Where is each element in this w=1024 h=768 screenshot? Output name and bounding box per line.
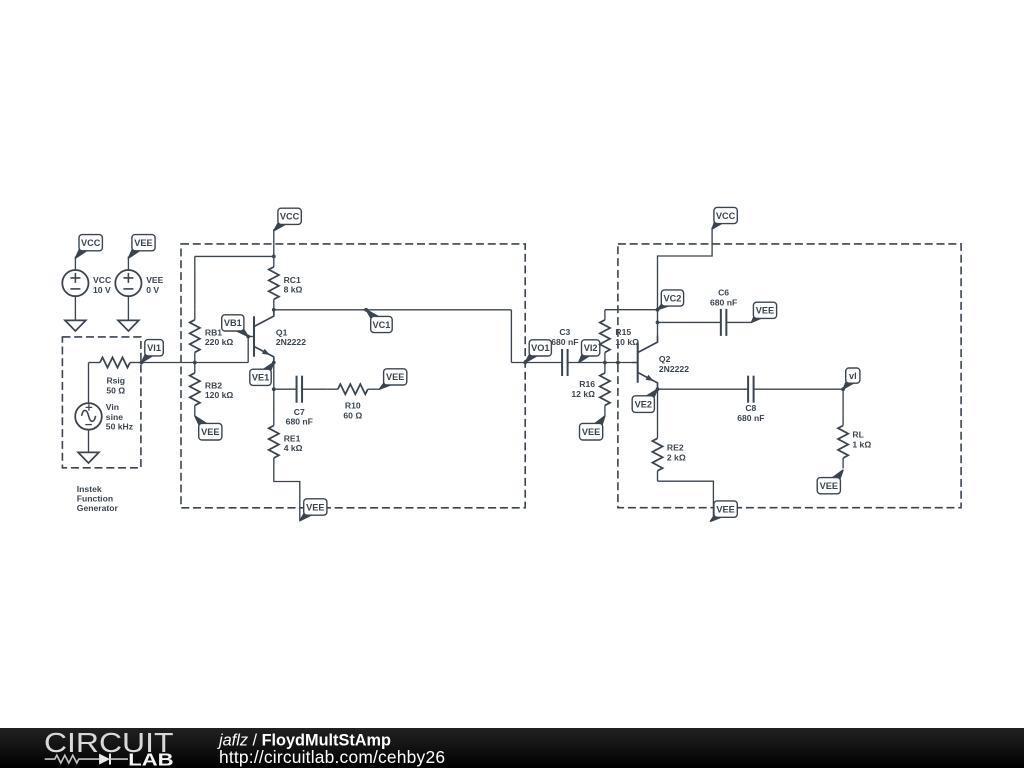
resistor RL (842, 415, 844, 425)
svg-text:Rsig: Rsig (106, 376, 125, 386)
svg-text:VO1: VO1 (531, 343, 549, 353)
svg-text:VCC: VCC (280, 212, 300, 222)
junction VI1 node (140, 361, 144, 365)
net flag VCC (supply definition) (75, 248, 87, 259)
wire Vin to Rsig (88, 363, 90, 404)
svg-text:RC1: RC1 (284, 275, 301, 285)
svg-text:VEE: VEE (201, 427, 219, 437)
net flag VO1 (525, 353, 538, 363)
net flag VEE (supply definition) (128, 248, 140, 259)
svg-text:VEE: VEE (146, 275, 163, 285)
svg-text:VEE: VEE (386, 372, 404, 382)
svg-text:120 kΩ: 120 kΩ (205, 390, 234, 400)
svg-text:2N2222: 2N2222 (659, 364, 689, 374)
CircuitLab logo resistor-diode glyph (45, 755, 99, 763)
svg-text:VC1: VC1 (373, 320, 391, 330)
wire VCC drop stage 2 (658, 228, 713, 310)
svg-text:RE1: RE1 (284, 433, 301, 443)
wire collector rail to VC1 (274, 309, 512, 311)
resistor Rsig (89, 362, 101, 364)
voltage source VCC 10 V (62, 270, 88, 296)
wire C7 to R10 (302, 388, 326, 390)
junction VCC rail node (272, 255, 276, 259)
svg-text:680 nF: 680 nF (286, 417, 313, 427)
net flag VC1 (366, 310, 379, 320)
wire VEE source to ground (127, 296, 129, 320)
wire VEE flag to source (127, 257, 129, 271)
svg-text:Instek: Instek (77, 484, 102, 494)
net flag VEE (bottom stage 1) (300, 512, 312, 521)
junction Q2 emitter node (656, 387, 660, 391)
svg-text:C7: C7 (294, 407, 305, 417)
svg-text:Generator: Generator (77, 503, 119, 513)
capacitor C3 (561, 349, 563, 376)
resistor RB2 (194, 363, 196, 373)
wire VC1 rail drop (510, 310, 512, 363)
wire vl to RL (842, 389, 844, 415)
footer bar background (0, 728, 1024, 768)
net flag VCC (stage 1) (274, 221, 287, 231)
svg-text:RB2: RB2 (205, 380, 222, 390)
junction VO1 node (523, 361, 527, 365)
net flag VEE (below R16) (594, 416, 605, 427)
svg-text:50 Ω: 50 Ω (106, 385, 125, 395)
net flag VEE (below RB2) (195, 416, 207, 427)
junction emitter branch node (272, 387, 276, 391)
svg-text:RL: RL (852, 430, 863, 440)
dashed box: amplifier stage 2 (618, 244, 961, 508)
wire to C6 (658, 321, 721, 323)
junction VC1 node (364, 308, 368, 312)
svg-text:10 V: 10 V (93, 285, 111, 295)
net flag VEE (right of C6) (752, 315, 762, 322)
svg-text:VE2: VE2 (635, 399, 652, 409)
wire emitter branch to RE1 (273, 389, 275, 415)
svg-text:VCC: VCC (93, 275, 111, 285)
net flag VI2 (579, 353, 590, 363)
net flag VE1 (263, 363, 274, 373)
capacitor C6 (720, 309, 722, 336)
svg-text:VB1: VB1 (224, 318, 242, 328)
svg-text:VEE: VEE (582, 427, 600, 437)
voltage source VEE 0 V (115, 270, 141, 296)
svg-text:R15: R15 (615, 327, 631, 337)
svg-text:VEE: VEE (306, 502, 324, 512)
net flag vl (843, 380, 854, 389)
wire left rail (194, 256, 196, 309)
svg-text:VEE: VEE (756, 306, 774, 316)
svg-text:VI2: VI2 (584, 343, 598, 353)
junction Q1 collector node (272, 308, 276, 312)
wire to C3 (511, 362, 562, 364)
svg-text:C6: C6 (718, 288, 729, 298)
svg-text:1 kΩ: 1 kΩ (852, 439, 871, 449)
svg-text:Q2: Q2 (659, 354, 671, 364)
svg-text:VEE: VEE (716, 504, 734, 514)
svg-text:VCC: VCC (81, 238, 101, 248)
svg-text:Q1: Q1 (276, 327, 288, 337)
svg-text:VE1: VE1 (252, 373, 269, 383)
wire C6 to VEE flag (726, 321, 751, 323)
capacitor C7 (296, 376, 298, 403)
resistor RC1 (273, 256, 275, 266)
net flag VI1 (142, 353, 154, 363)
svg-text:680 nF: 680 nF (710, 297, 737, 307)
wire RE1 to VEE flag (274, 468, 300, 520)
svg-text:R10: R10 (345, 401, 361, 411)
wire Q1 emitter to C7 (273, 363, 275, 390)
wire collector rail stage 2 (657, 310, 659, 336)
svg-text:RB1: RB1 (205, 327, 222, 337)
junction Q1 base node (246, 335, 250, 339)
svg-text:680 nF: 680 nF (737, 413, 764, 423)
svg-text:http://circuitlab.com/cehby26: http://circuitlab.com/cehby26 (219, 747, 445, 767)
dashed box: amplifier stage 1 (181, 244, 525, 508)
junction RB1-RB2 node (193, 361, 197, 365)
svg-text:VI1: VI1 (147, 343, 161, 353)
svg-text:Function: Function (77, 494, 113, 504)
svg-text:VCC: VCC (716, 211, 736, 221)
wire VCC source to ground (74, 296, 76, 320)
resistor RB1 (194, 310, 196, 320)
ground (below VEE source) (118, 320, 139, 331)
svg-text:RE2: RE2 (667, 443, 684, 453)
svg-text:VC2: VC2 (664, 293, 682, 303)
svg-text:LAB: LAB (128, 750, 173, 768)
resistor R10 (326, 388, 338, 390)
net flag VEE (below RL) (832, 470, 843, 481)
net flag VCC (stage 2) (712, 220, 722, 229)
net flag VEE (right of R10) (379, 382, 392, 389)
ground (below VCC source) (65, 320, 86, 331)
wire RE2 to VEE flag (658, 481, 714, 521)
junction R15-R16 node (603, 361, 607, 365)
resistor RE2 (657, 428, 659, 438)
ground (below Vin) (78, 452, 99, 463)
resistor R15 (604, 310, 606, 320)
svg-text:10 kΩ: 10 kΩ (615, 337, 639, 347)
svg-text:60 Ω: 60 Ω (343, 410, 362, 420)
svg-text:12 kΩ: 12 kΩ (571, 389, 595, 399)
svg-text:680 nF: 680 nF (551, 337, 578, 347)
svg-text:VEE: VEE (820, 481, 838, 491)
svg-text:sine: sine (106, 412, 123, 422)
junction VC2 node (656, 308, 660, 312)
svg-text:R16: R16 (579, 379, 595, 389)
net flag VB1 (235, 328, 248, 337)
junction C6 branch node (656, 321, 660, 325)
net flag VC2 (658, 303, 670, 310)
svg-text:8 kΩ: 8 kΩ (284, 285, 303, 295)
capacitor C8 (747, 376, 749, 403)
svg-text:C3: C3 (559, 327, 570, 337)
svg-text:vl: vl (849, 371, 857, 381)
junction vl node (841, 387, 845, 391)
wire R15 top rail (605, 309, 658, 311)
junction Q1 emitter node (272, 361, 276, 365)
wire VCC flag to source (74, 257, 76, 271)
svg-text:VEE: VEE (134, 238, 152, 248)
wire C8 to vl node (754, 388, 844, 390)
svg-text:0 V: 0 V (146, 285, 159, 295)
transistor Q1 2N2222 (253, 316, 255, 356)
dashed box: function generator (62, 337, 140, 468)
junction stage-2 boundary node (616, 361, 620, 365)
wire Vin to ground (88, 430, 90, 453)
wire VCC drop stage 1 (273, 229, 275, 256)
svg-text:4 kΩ: 4 kΩ (284, 443, 303, 453)
voltage source Vin sine (75, 403, 102, 430)
wire VI1 to Q1 base riser (142, 362, 249, 364)
wire Q2 emitter to C8 (658, 388, 749, 390)
svg-text:220 kΩ: 220 kΩ (205, 337, 234, 347)
net flag VEE (bottom stage 2) (710, 514, 722, 521)
wire to C7 left plate (274, 388, 297, 390)
net flag VE2 (646, 389, 658, 399)
wire emitter to RE2 (657, 389, 659, 428)
svg-text:C8: C8 (745, 403, 756, 413)
wire C3 to stage 2 (568, 362, 638, 364)
svg-text:Vin: Vin (106, 402, 119, 412)
wire base riser (247, 337, 249, 363)
resistor R16 (604, 363, 606, 373)
wire top inner rail (195, 255, 274, 257)
transistor Q2 2N2222 (637, 342, 639, 382)
svg-text:2 kΩ: 2 kΩ (667, 452, 686, 462)
svg-text:50 kHz: 50 kHz (106, 422, 133, 432)
resistor RE1 (273, 415, 275, 425)
svg-text:2N2222: 2N2222 (276, 337, 306, 347)
